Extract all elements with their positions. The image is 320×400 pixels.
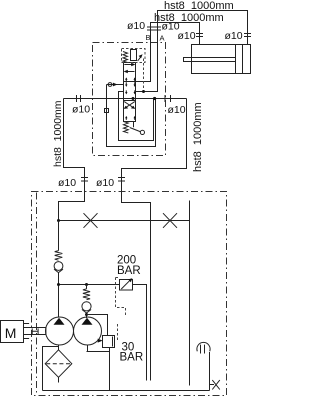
- svg-text:ø10: ø10: [72, 104, 90, 116]
- relief valve RV1 outlet: [133, 285, 147, 381]
- valve top spring: [123, 52, 128, 63]
- check valve CV1 seat: [54, 269, 63, 273]
- hose B top run: [151, 23, 200, 41]
- valve section 1 arrows: [124, 63, 136, 81]
- svg-text:ø10: ø10: [225, 30, 243, 42]
- port stub cylinder left: [199, 31, 201, 45]
- P/T main horizontal line: [64, 98, 187, 100]
- fitting ticks on cylinder left port: [196, 34, 203, 37]
- cylinder rod: [184, 58, 236, 62]
- svg-text:ø10: ø10: [58, 177, 76, 189]
- A work line into valve: [136, 40, 158, 92]
- relief line to 200BAR: [59, 284, 120, 286]
- orifice box on drop line: [105, 109, 109, 113]
- filter F1 diamond: [45, 350, 72, 378]
- check valve CV1 spring: [55, 251, 63, 261]
- motor flange marks: [24, 324, 30, 339]
- B work line into valve: [136, 40, 151, 82]
- fitting ticks on T line (right): [165, 95, 171, 102]
- svg-text:hst8 1000mm: hst8 1000mm: [52, 100, 64, 167]
- relief valve RV2 30BAR body: [103, 336, 115, 348]
- pump P2 riser: [86, 285, 88, 319]
- pilot line (dashed) to A port: [143, 59, 145, 92]
- valve V1 body: [124, 63, 136, 122]
- valve lever: [133, 122, 135, 128]
- check valve CV2 ball: [82, 302, 91, 311]
- breather line: [209, 352, 211, 391]
- junction dot A/pilot: [142, 90, 145, 93]
- valve section 2 marks: [125, 82, 136, 94]
- valve bottom spring: [124, 122, 129, 133]
- T line into power unit: [122, 192, 151, 381]
- motor M1 body: [1, 321, 24, 343]
- pump P2 suction: [87, 345, 110, 352]
- valve manifold enclosure (dash-dot): [93, 43, 166, 156]
- svg-text:ø10: ø10: [178, 30, 196, 42]
- relief valve RV2 inlet arrow: [98, 339, 103, 343]
- junction dot manifold left: [57, 219, 60, 222]
- check valve to valve left port: [107, 84, 124, 86]
- svg-text:B: B: [146, 33, 151, 42]
- hose P vertical run: [64, 99, 85, 192]
- plugged stub X: [210, 384, 215, 386]
- P line into power unit: [59, 192, 85, 221]
- power unit inner left edge: [36, 193, 38, 396]
- svg-text:M: M: [5, 325, 17, 341]
- svg-text:ø10: ø10: [127, 20, 145, 32]
- pump P2 circle: [74, 317, 102, 345]
- hose A top run: [158, 11, 248, 41]
- tank line: [43, 390, 210, 392]
- check valve CV1 ball: [54, 262, 63, 271]
- svg-text:BAR: BAR: [120, 352, 144, 364]
- filter F1 element (dashed): [46, 363, 71, 365]
- relief valve RV2 outlet: [109, 348, 111, 391]
- internal manifold line: [59, 220, 190, 222]
- fitting ticks on A line: [154, 27, 161, 30]
- valve section 3 crossed arrows: [124, 102, 136, 120]
- valve pilot box: [131, 50, 137, 61]
- power unit enclosure (dash-dot): [32, 192, 227, 396]
- svg-text:hst8 1000mm: hst8 1000mm: [192, 102, 204, 172]
- valve pilot actuator enclosure (dashed): [122, 49, 146, 63]
- pump P1 suction: [58, 345, 60, 350]
- pump P1 riser: [58, 221, 60, 318]
- fitting ticks on B line: [147, 27, 154, 30]
- drop line from check to bottom wrap: [107, 85, 156, 147]
- plugged port X1: [84, 213, 98, 228]
- check valve CV2 spring: [83, 289, 90, 300]
- inner wrap line (valve left lower port): [119, 92, 154, 141]
- relief valve RV1 200BAR body: [120, 280, 133, 291]
- junction dot CV2 outlet: [85, 313, 88, 316]
- svg-text:A: A: [160, 34, 165, 43]
- filter F1 tail: [58, 377, 60, 382]
- check valve CV2 seat: [82, 310, 91, 314]
- cylinder piston: [236, 45, 243, 74]
- cylinder C1 body: [192, 45, 251, 74]
- bypass line: [43, 347, 59, 391]
- gauge stub line: [189, 201, 191, 386]
- pump P1 triangle: [54, 318, 65, 325]
- valve section dividers: [124, 82, 136, 101]
- coupling: [32, 328, 38, 334]
- fitting ticks on cylinder right port: [244, 34, 251, 37]
- junction dot relief left: [57, 283, 60, 286]
- pump P2 triangle: [82, 318, 93, 325]
- svg-text:ø10: ø10: [168, 104, 186, 116]
- plugged port X2: [163, 213, 177, 228]
- junction dot valve right P: [132, 97, 135, 100]
- relief valve RV2 pilot dashes: [117, 324, 119, 341]
- fitting ticks on P riser: [81, 178, 88, 182]
- relief valve RV1 pilot dashes: [116, 278, 126, 316]
- svg-text:ø10: ø10: [96, 177, 114, 189]
- shaft: [24, 328, 46, 335]
- branch to 30BAR: [87, 315, 108, 336]
- relief valve RV1 arrow: [121, 280, 130, 289]
- junction dot pump2 riser: [85, 283, 88, 286]
- relief valve RV2 inner line: [112, 337, 114, 347]
- breather cap: [197, 342, 210, 351]
- port stub cylinder right: [247, 31, 249, 45]
- junction dot P pilot riser: [153, 97, 156, 100]
- pump P1 circle: [46, 317, 74, 345]
- valve pilot arrow: [138, 57, 141, 61]
- fitting ticks on T riser: [118, 178, 125, 182]
- fitting ticks on P line (left): [77, 95, 81, 102]
- svg-text:BAR: BAR: [117, 265, 141, 277]
- hose T vertical run: [122, 99, 187, 192]
